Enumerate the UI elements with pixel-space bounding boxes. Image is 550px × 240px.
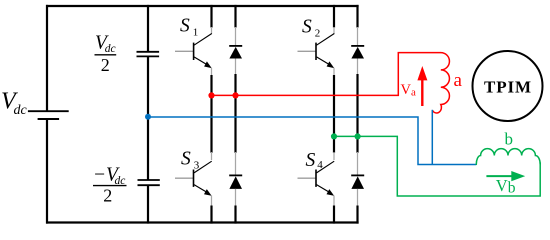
label Vdc (source)	[1, 89, 28, 118]
svg-text:a: a	[454, 70, 463, 91]
wire capacitor bus upper	[147, 5, 149, 51]
svg-text:3: 3	[194, 160, 200, 172]
diode D3	[229, 175, 242, 189]
label S2	[302, 17, 320, 40]
svg-text:dc: dc	[14, 103, 28, 118]
svg-text:1: 1	[193, 27, 199, 39]
wire leg1 diode branch bottom	[235, 189, 237, 207]
junction dot blue	[145, 114, 151, 120]
wire leg1 transistor branch middle	[211, 68, 213, 76]
svg-text:4: 4	[317, 159, 323, 171]
svg-text:2: 2	[315, 28, 321, 40]
wire leg2 diode branch bottom	[357, 189, 359, 207]
wire top DC bus	[46, 5, 359, 7]
svg-text:S: S	[180, 16, 190, 37]
capacitor C2 (-Vdc/2)	[138, 180, 160, 185]
arrow Vb	[486, 171, 525, 181]
junction dot red 1	[208, 92, 214, 98]
label Vdc/2 fraction	[95, 32, 117, 75]
winding a (red coil)	[432, 53, 449, 113]
wire capacitor bus lower	[147, 185, 149, 223]
svg-text:S: S	[181, 149, 191, 170]
label S4	[306, 150, 324, 171]
wire leg2 transistor branch top	[333, 5, 335, 28]
svg-text:S: S	[302, 17, 312, 38]
red phase-a wire	[212, 53, 442, 96]
svg-text:2: 2	[103, 185, 112, 205]
wire bottom DC bus	[46, 221, 359, 223]
transistor S3	[175, 161, 212, 196]
wire left branch upper	[46, 5, 48, 111]
junction dot green 2	[355, 133, 361, 139]
junction dot green 1	[331, 133, 337, 139]
wire leg1 transistor branch top	[210, 5, 212, 28]
diode D2	[351, 46, 364, 59]
winding b (green coil)	[476, 149, 540, 165]
diode D1	[229, 46, 242, 59]
capacitor C1 (Vdc/2)	[137, 52, 160, 57]
blue winding-a return lead	[431, 110, 433, 165]
battery Vdc plates	[28, 111, 69, 119]
svg-text:b: b	[508, 180, 516, 197]
label S1	[180, 16, 198, 39]
junction dot red 2	[232, 92, 238, 98]
svg-text:a: a	[411, 86, 416, 98]
svg-text:TPIM: TPIM	[484, 78, 532, 97]
svg-text:2: 2	[101, 55, 110, 75]
green phase-b wire	[334, 136, 540, 196]
label Va	[401, 82, 417, 98]
transistor S4	[298, 161, 335, 196]
label Vb	[496, 176, 516, 197]
wire leg2 diode branch middle	[357, 59, 359, 76]
wire leg1 diode branch top	[234, 5, 236, 28]
svg-text:b: b	[505, 129, 514, 148]
wire leg2 transistor branch middle	[333, 68, 335, 76]
wire capacitor bus middle	[147, 56, 149, 179]
arrow Va	[417, 66, 427, 106]
wire leg2 transistor branch bottom	[333, 196, 335, 207]
blue neutral wire	[148, 117, 476, 165]
motor TPIM circle	[473, 51, 543, 121]
transistor S1	[175, 34, 212, 69]
svg-text:S: S	[306, 150, 316, 171]
wire leg1 transistor branch bottom	[211, 196, 213, 207]
label S3	[181, 149, 200, 172]
transistor S2	[298, 34, 335, 69]
wire left branch lower	[46, 119, 48, 224]
wire leg2 diode branch top	[356, 5, 358, 28]
wire leg1 diode branch middle	[235, 59, 237, 76]
label -Vdc/2 fraction	[93, 164, 127, 205]
svg-text:dc: dc	[105, 43, 116, 55]
diode D4	[351, 175, 364, 189]
svg-text:V: V	[496, 176, 508, 195]
svg-text:V: V	[401, 82, 412, 98]
